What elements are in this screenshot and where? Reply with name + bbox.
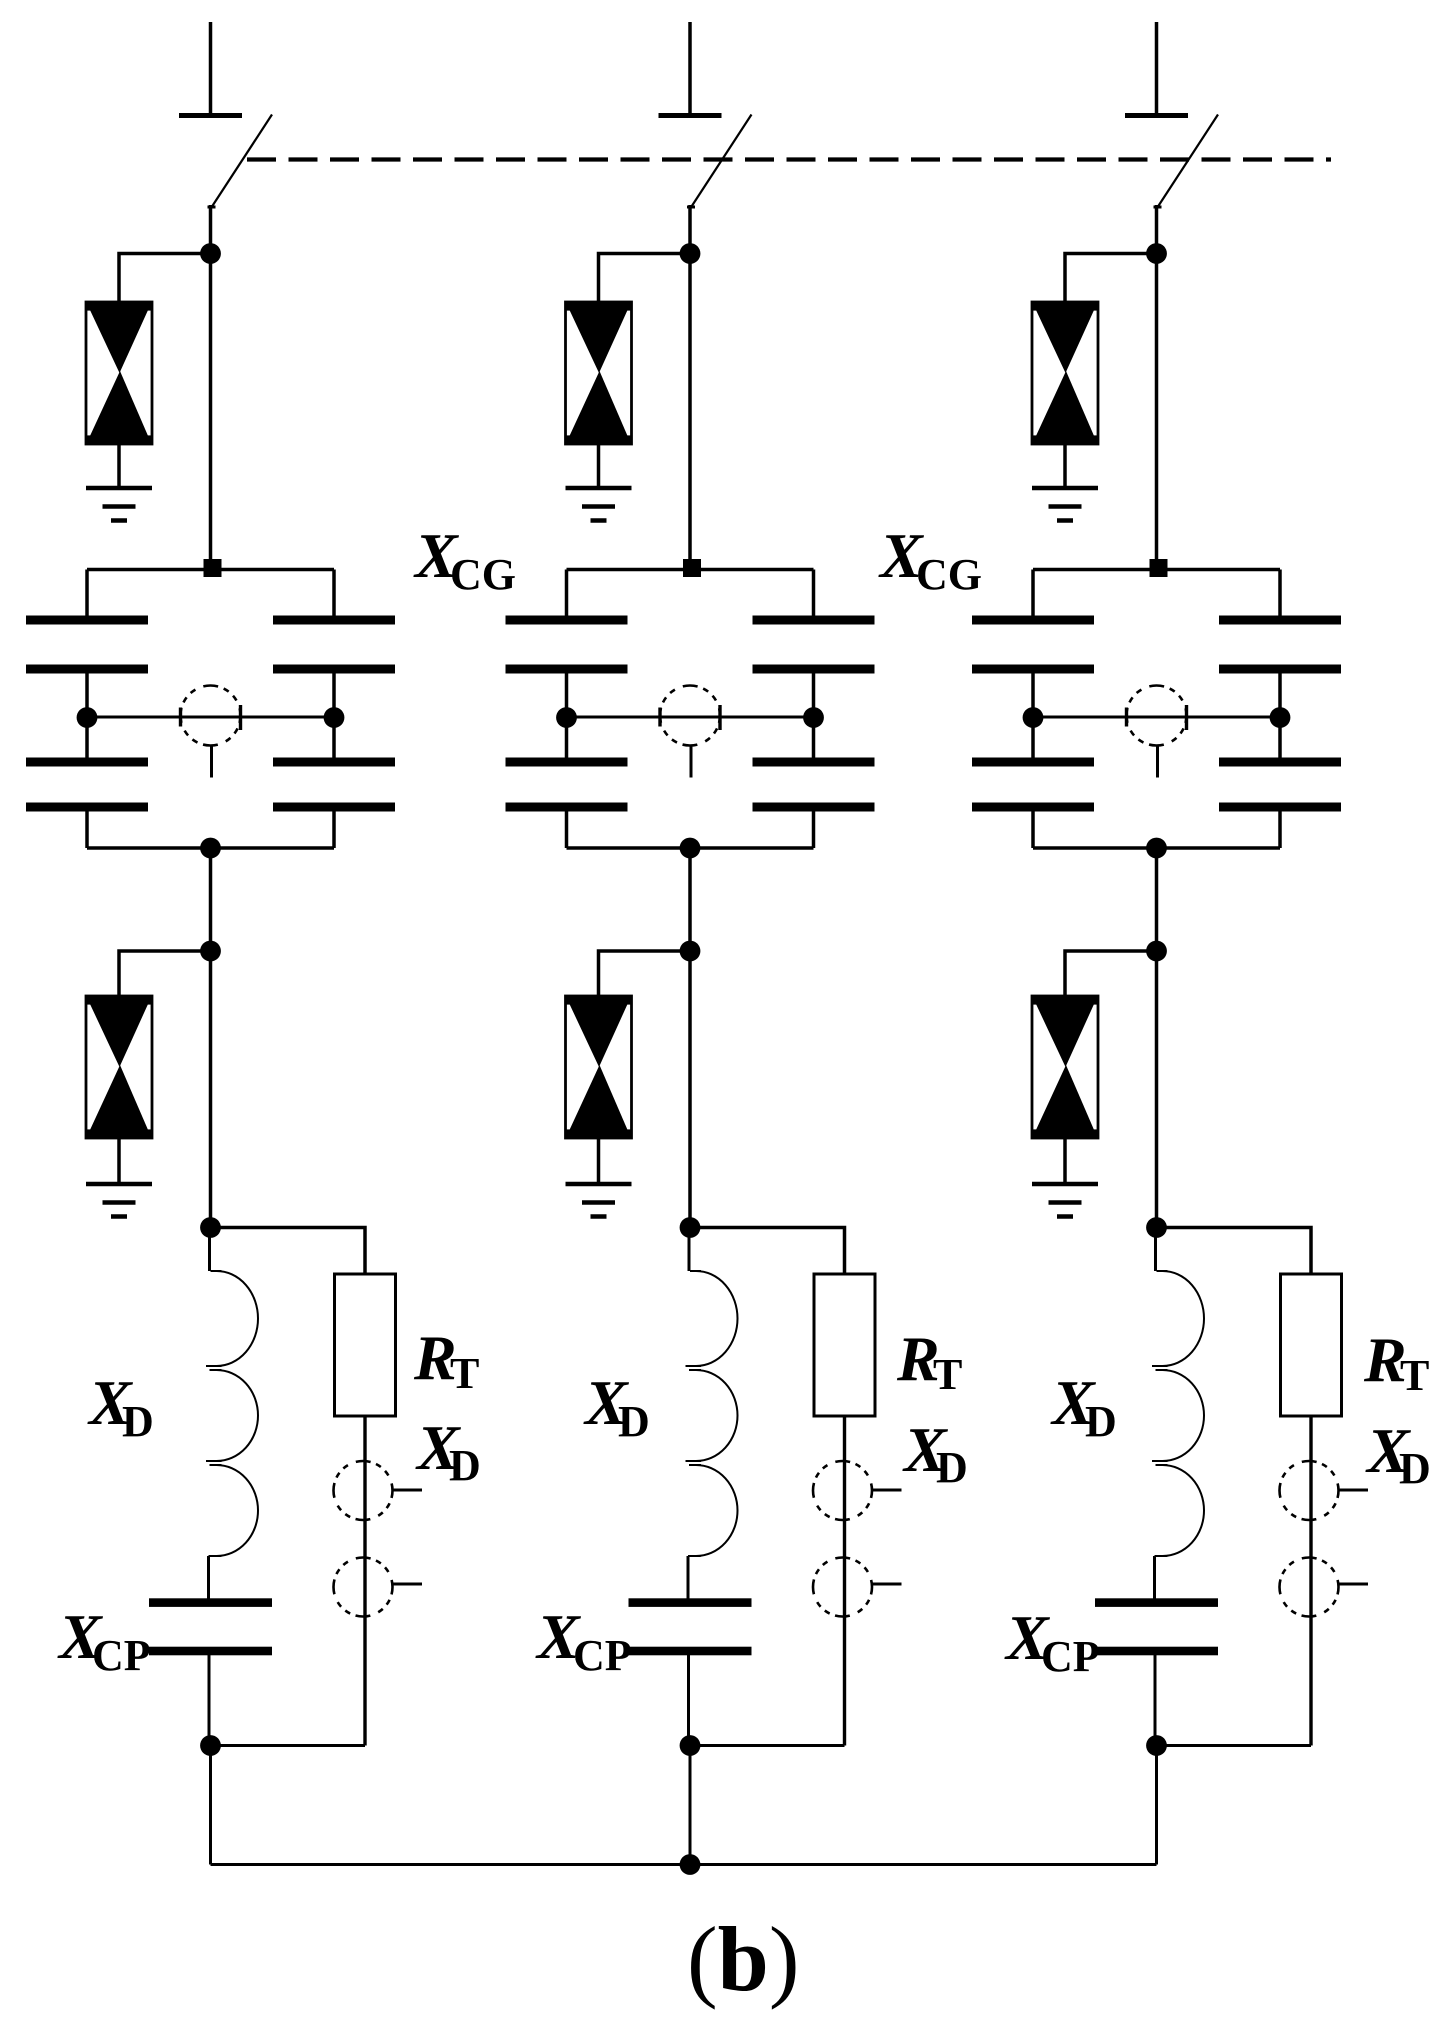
wire: mid tap across spark gap (phase B): [567, 716, 814, 719]
spark gap electrode ticks (phase A): [179, 708, 182, 727]
wire: top wire to C1 right (phase B): [812, 570, 816, 618]
svg-text:D: D: [1399, 1444, 1431, 1493]
svg-text:(b): (b): [687, 1908, 799, 2010]
spark gap circle (phase C): [1127, 686, 1187, 746]
wire: mid tap across spark gap (phase C): [1033, 716, 1280, 719]
capacitor C1 right X_CG (phase C): [1219, 616, 1341, 625]
capacitor C2 left X_CG (phase A): [26, 758, 148, 767]
wire: C1 left to C2 left (phase C): [1031, 673, 1035, 758]
capacitor X_CP (phase A): [149, 1598, 272, 1607]
surge arrester F1B (phase B): [566, 302, 632, 444]
svg-text:CP: CP: [92, 1631, 151, 1680]
inductor X_D coil (phase A): [206, 1271, 258, 1556]
junction node 2 (phase A): [200, 941, 221, 962]
surge arrester F2B (phase B): [566, 996, 632, 1138]
wire: top wire to C1 right (phase A): [332, 570, 336, 618]
spark gap tail stub (phase A): [210, 746, 213, 778]
node at capacitor bank bottom (phase A): [200, 838, 221, 859]
capacitor bank top wire (phase A): [87, 568, 334, 572]
disconnector blade SB: [692, 115, 752, 207]
wire: blade to junction (phase A): [209, 205, 213, 255]
wire: junction 2 to junction 3 (phase B): [688, 951, 692, 1229]
wire: top wire to C1 left (phase C): [1031, 570, 1035, 618]
capacitor C1 left X_CG (phase B): [506, 616, 628, 625]
node at capacitor bank bottom (phase C): [1146, 838, 1167, 859]
bottom junction node (phase C): [1146, 1735, 1167, 1756]
capacitor C1 left X_CG (phase C): [972, 616, 1094, 625]
svg-text:CG: CG: [916, 550, 982, 599]
wire: top wire to C1 left (phase A): [85, 570, 89, 618]
wire: resistor through gaps to bottom junction (phase A): [363, 1416, 366, 1746]
capacitor X_CP (phase B): [629, 1598, 752, 1607]
junction dot left (phase A): [77, 707, 98, 728]
gap 2 side tick (phase A): [393, 1583, 422, 1586]
wire: blade to junction (phase B): [688, 205, 692, 255]
wire: junction 1 to arrester 1 (phase B): [599, 254, 691, 304]
surge arrester F1C (phase C): [1032, 302, 1098, 444]
damper gap circle 2 (phase C): [1280, 1558, 1339, 1617]
wire: top wire to C1 left (phase B): [565, 570, 569, 618]
junction dot right (phase B): [803, 707, 824, 728]
svg-text:T: T: [450, 1349, 479, 1398]
node (square) at capacitor bank top (phase B): [683, 559, 701, 577]
incoming busbar stub (phase A): [209, 22, 213, 113]
gap 1 side tick (phase B): [873, 1489, 902, 1492]
svg-text:D: D: [618, 1397, 650, 1446]
svg-text:D: D: [1085, 1397, 1117, 1446]
capacitor bank bottom wire (phase A): [87, 846, 334, 850]
capacitor C2 right X_CG (phase A): [273, 758, 395, 767]
gap 2 side tick (phase B): [873, 1583, 902, 1586]
wire: junction 3 to resistor branch (phase A): [211, 1228, 366, 1275]
spark gap electrode ticks (phase B): [658, 708, 661, 727]
wire: junction 3 to inductor coil (phase C): [1154, 1228, 1157, 1272]
damper gap circle 2 (phase B): [813, 1558, 872, 1617]
damper gap circle 1 X_D (phase C): [1280, 1461, 1339, 1520]
wire: C2 left to bottom wire (phase A): [85, 811, 89, 848]
resistor R_T (phase C): [1281, 1274, 1342, 1416]
wire: capacitor bank to junction 2 (phase A): [209, 848, 213, 951]
wire: C1 right to C2 right (phase C): [1278, 673, 1282, 758]
svg-text:D: D: [449, 1441, 481, 1490]
svg-text:CP: CP: [1041, 1632, 1100, 1681]
wire: C1 left to C2 left (phase A): [85, 673, 89, 758]
ground symbol (phase A, lower): [86, 1182, 152, 1187]
wire: junction 3 to inductor coil (phase A): [208, 1228, 211, 1272]
wire: coil to capacitor X_CP (phase A): [207, 1556, 210, 1600]
control/trigger dashed line: [247, 157, 1331, 161]
wire: coil to capacitor X_CP (phase B): [687, 1556, 690, 1600]
wire: junction 3 to resistor branch (phase B): [690, 1228, 845, 1275]
wire: C2 right to bottom wire (phase C): [1278, 811, 1282, 848]
surge arrester F2C (phase C): [1032, 996, 1098, 1138]
wire: C2 right to bottom wire (phase A): [332, 811, 336, 848]
junction node 3 (phase C): [1146, 1217, 1167, 1238]
capacitor bank top wire (phase B): [567, 568, 814, 572]
wire: bottom junction to bus (phase C): [1155, 1746, 1158, 1865]
wire: capacitor bank to junction 2 (phase C): [1155, 848, 1159, 951]
wire: junction 2 to junction 3 (phase A): [209, 951, 213, 1229]
junction dot left (phase C): [1023, 707, 1044, 728]
gap 1 side tick (phase A): [393, 1489, 422, 1492]
junction node 3 (phase A): [200, 1217, 221, 1238]
wire: capacitor bank to junction 2 (phase B): [688, 848, 692, 951]
inductor X_D coil (phase B): [686, 1271, 738, 1556]
wire: arrester 1 to ground (phase A): [117, 444, 121, 488]
wire: X_CP to bottom junction (phase C): [1154, 1655, 1157, 1746]
capacitor C1 left X_CG (phase A): [26, 616, 148, 625]
ground symbol (phase A, upper): [86, 486, 152, 491]
node (square) at capacitor bank top (phase A): [204, 559, 222, 577]
wire: C1 right to C2 right (phase A): [332, 673, 336, 758]
damper gap circle 1 X_D (phase B): [813, 1461, 872, 1520]
ground symbol (phase B, upper): [566, 486, 632, 491]
incoming busbar stub (phase C): [1155, 22, 1159, 113]
bottom bus wire: [211, 1863, 1157, 1866]
spark gap circle (phase B): [660, 686, 720, 746]
wire: junction 1 to capacitor bank (phase A): [209, 254, 213, 570]
svg-text:T: T: [1400, 1351, 1429, 1400]
node (square) at capacitor bank top (phase C): [1150, 559, 1168, 577]
junction node 1 (phase A): [200, 243, 221, 264]
wire: X_CP to bottom junction (phase B): [687, 1655, 690, 1746]
wire: C2 right to bottom wire (phase B): [812, 811, 816, 848]
wire: mid tap across spark gap (phase A): [87, 716, 334, 719]
bottom junction node (phase A): [200, 1735, 221, 1756]
junction node 3 (phase B): [680, 1217, 701, 1238]
disconnector blade SA: [212, 115, 272, 207]
junction dot right (phase A): [324, 707, 345, 728]
spark gap circle (phase A): [181, 686, 241, 746]
junction node 1 (phase C): [1146, 243, 1167, 264]
wire: bottom junction to resistor branch (phase C): [1157, 1744, 1312, 1747]
disconnector top contact bar (phase A): [179, 113, 242, 118]
capacitor C2 left X_CG (phase B): [506, 758, 628, 767]
wire: arrester 2 to ground (phase A): [117, 1138, 121, 1184]
wire: blade to junction (phase C): [1155, 205, 1159, 255]
gap 1 side tick (phase C): [1339, 1489, 1368, 1492]
disconnector blade SC: [1158, 115, 1218, 207]
wire: junction 1 to capacitor bank (phase C): [1155, 254, 1159, 570]
bottom junction node (phase B): [680, 1735, 701, 1756]
resistor R_T (phase A): [335, 1274, 396, 1416]
capacitor X_CP (phase C): [1095, 1598, 1218, 1607]
svg-text:CG: CG: [450, 550, 516, 599]
spark gap tail stub (phase B): [690, 746, 693, 778]
capacitor C2 right X_CG (phase C): [1219, 758, 1341, 767]
wire: bottom junction to resistor branch (phase A): [211, 1744, 366, 1747]
disconnector top contact bar (phase B): [659, 113, 722, 118]
svg-text:CP: CP: [573, 1631, 632, 1680]
svg-text:D: D: [122, 1397, 154, 1446]
wire: junction 1 to arrester 1 (phase A): [119, 254, 211, 304]
damper gap circle 1 X_D (phase A): [334, 1461, 393, 1520]
inductor X_D coil (phase C): [1152, 1271, 1204, 1556]
wire: C2 left to bottom wire (phase C): [1031, 811, 1035, 848]
wire: arrester 1 to ground (phase B): [597, 444, 601, 488]
junction node 1 (phase B): [680, 243, 701, 264]
wire: bottom junction to bus (phase B): [689, 1746, 692, 1865]
wire: junction 3 to resistor branch (phase C): [1157, 1228, 1312, 1275]
node at capacitor bank bottom (phase B): [680, 838, 701, 859]
gap 2 side tick (phase C): [1339, 1583, 1368, 1586]
wire: junction 2 to arrester 2 (phase C): [1065, 951, 1157, 997]
capacitor C1 right X_CG (phase A): [273, 616, 395, 625]
wire: resistor through gaps to bottom junction (phase C): [1309, 1416, 1312, 1746]
junction node 2 (phase C): [1146, 941, 1167, 962]
wire: junction 1 to arrester 1 (phase C): [1065, 254, 1157, 304]
wire: coil to capacitor X_CP (phase C): [1153, 1556, 1156, 1600]
spark gap tail stub (phase C): [1156, 746, 1159, 778]
svg-text:D: D: [936, 1443, 968, 1492]
wire: junction 2 to arrester 2 (phase A): [119, 951, 211, 997]
capacitor bank top wire (phase C): [1033, 568, 1280, 572]
junction node 2 (phase B): [680, 941, 701, 962]
wire: bottom junction to bus (phase A): [209, 1746, 212, 1865]
capacitor C2 right X_CG (phase B): [753, 758, 875, 767]
ground symbol (phase C, upper): [1032, 486, 1098, 491]
surge arrester F1A (phase A): [86, 302, 152, 444]
wire: junction 1 to capacitor bank (phase B): [688, 254, 692, 570]
damper gap circle 2 (phase A): [334, 1558, 393, 1617]
capacitor bank bottom wire (phase C): [1033, 846, 1280, 850]
wire: arrester 2 to ground (phase C): [1063, 1138, 1067, 1184]
resistor R_T (phase B): [814, 1274, 875, 1416]
wire: arrester 1 to ground (phase C): [1063, 444, 1067, 488]
capacitor bank bottom wire (phase B): [567, 846, 814, 850]
capacitor C2 left X_CG (phase C): [972, 758, 1094, 767]
wire: C2 left to bottom wire (phase B): [565, 811, 569, 848]
spark gap electrode ticks (phase C): [1125, 708, 1128, 727]
wire: junction 2 to arrester 2 (phase B): [599, 951, 691, 997]
wire: top wire to C1 right (phase C): [1278, 570, 1282, 618]
wire: X_CP to bottom junction (phase A): [208, 1655, 211, 1746]
wire: C1 right to C2 right (phase B): [812, 673, 816, 758]
ground symbol (phase B, lower): [566, 1182, 632, 1187]
ground symbol (phase C, lower): [1032, 1182, 1098, 1187]
disconnector top contact bar (phase C): [1125, 113, 1188, 118]
surge arrester F2A (phase A): [86, 996, 152, 1138]
junction dot left (phase B): [556, 707, 577, 728]
capacitor C1 right X_CG (phase B): [753, 616, 875, 625]
incoming busbar stub (phase B): [688, 22, 692, 113]
wire: bottom junction to resistor branch (phase B): [690, 1744, 845, 1747]
wire: resistor through gaps to bottom junction (phase B): [843, 1416, 846, 1746]
wire: arrester 2 to ground (phase B): [597, 1138, 601, 1184]
bus junction node: [680, 1854, 701, 1875]
junction dot right (phase C): [1270, 707, 1291, 728]
svg-text:T: T: [933, 1350, 962, 1399]
wire: C1 left to C2 left (phase B): [565, 673, 569, 758]
wire: junction 2 to junction 3 (phase C): [1155, 951, 1159, 1229]
wire: junction 3 to inductor coil (phase B): [688, 1228, 691, 1272]
